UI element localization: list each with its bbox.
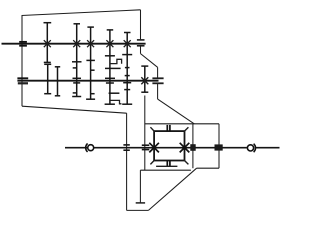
cage corner tick top-left: [150, 127, 154, 131]
wire stem under bearing2R: [157, 84, 159, 100]
synchro fork lower on D: [110, 100, 122, 103]
shaft S3 output right: [256, 147, 280, 149]
shaft S2 lay: [17, 80, 158, 82]
shaft S3 output left: [65, 147, 247, 149]
wire axle box right wall: [218, 124, 220, 168]
wire housing bottom sloped: [22, 106, 127, 113]
shaft S1 input: [2, 43, 146, 45]
gear A2 on S2: [44, 64, 51, 93]
gear D on S1: [105, 30, 121, 104]
cage corner tick bottom-right: [184, 160, 188, 164]
wire housing diagonal D1: [141, 54, 158, 68]
side bevel gear left X: [149, 143, 159, 153]
differential cage square: [154, 131, 184, 160]
gear E X mark: [124, 40, 131, 47]
gear F X mark: [141, 77, 148, 84]
gear A on S1: [44, 23, 52, 63]
bearing diff left: [142, 145, 150, 149]
pinion top strokes: [167, 125, 170, 131]
gear B on S1: [72, 24, 82, 97]
wire diff left wall: [144, 96, 146, 171]
pinion bottom axle shelf: [156, 165, 177, 167]
wire housing diagonal D3: [148, 168, 196, 210]
wire hanging stem cap: [136, 202, 145, 204]
gear A3 on S2: [55, 67, 60, 96]
universal joint left crescent: [86, 144, 88, 152]
gear F on S2: [141, 66, 148, 92]
bearing input shaft right: [137, 40, 145, 46]
wire housing diagonal D2: [158, 99, 195, 124]
wire stem under bearing: [140, 46, 142, 54]
gear D X mark: [106, 40, 113, 47]
gear A X mark: [44, 40, 51, 47]
cage corner tick top-right: [184, 127, 188, 131]
wire axle box bottom: [197, 167, 219, 169]
wire housing right vertical: [140, 10, 142, 40]
bearing lay shaft left: [17, 77, 28, 79]
gear C on S1: [86, 27, 95, 99]
synchro fork upper on D: [110, 59, 122, 64]
universal joint left circle: [88, 145, 94, 151]
bearing input shaft left: [19, 42, 27, 46]
wire diff right bearing wall: [192, 124, 194, 168]
bearing axle box block: [215, 144, 223, 150]
universal joint right crescent: [254, 144, 256, 152]
bearing output shaft at housing wall: [123, 145, 129, 150]
wire housing top sloped: [22, 10, 141, 16]
wire diff top shelf: [145, 123, 219, 125]
gear C X mark: [87, 40, 94, 47]
universal joint right circle: [247, 145, 253, 151]
cage corner tick bottom-left: [150, 160, 154, 164]
wire hanging stem: [139, 170, 141, 203]
wire housing long vertical: [126, 113, 128, 210]
side bevel gear right X: [180, 143, 190, 153]
gear E on S1: [122, 33, 132, 105]
wire housing bottom: [127, 209, 149, 211]
wire vertical to bearing2R: [157, 67, 159, 78]
bearing diff right block: [190, 144, 195, 151]
bearing lay shaft right: [152, 78, 163, 83]
pinion bottom strokes: [167, 160, 170, 166]
wire diff bottom shelf: [140, 169, 191, 171]
bearing lay shaft left block: [18, 82, 28, 84]
wire housing left vertical: [21, 15, 23, 106]
gear B X mark: [73, 40, 80, 47]
